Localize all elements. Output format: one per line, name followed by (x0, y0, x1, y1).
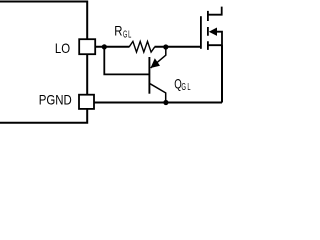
svg-text:L: L (187, 82, 190, 93)
svg-text:LO: LO (55, 40, 70, 56)
svg-text:G: G (123, 30, 127, 41)
svg-text:R: R (114, 22, 122, 38)
svg-text:L: L (128, 30, 131, 41)
svg-text:G: G (181, 82, 186, 93)
svg-text:PGND: PGND (39, 92, 72, 108)
